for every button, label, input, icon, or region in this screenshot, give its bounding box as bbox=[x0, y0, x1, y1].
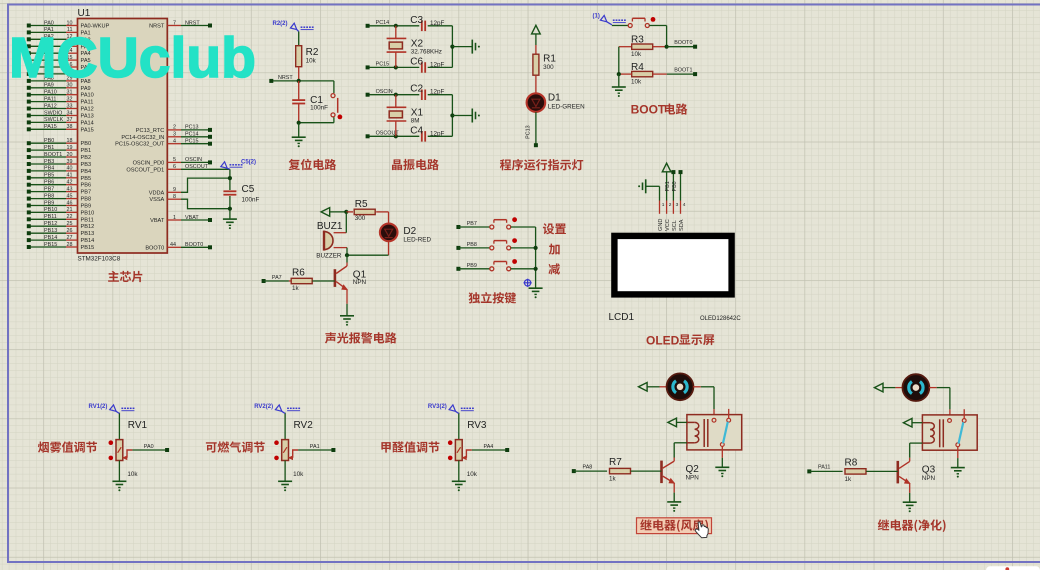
svg-text:20: 20 bbox=[67, 152, 73, 158]
svg-text:C4: C4 bbox=[410, 125, 423, 136]
svg-text:3: 3 bbox=[676, 202, 679, 208]
svg-text:18: 18 bbox=[67, 138, 73, 144]
svg-text:(1): (1) bbox=[593, 14, 600, 20]
svg-text:6: 6 bbox=[173, 164, 176, 170]
svg-text:PB8: PB8 bbox=[81, 197, 92, 203]
svg-text:2: 2 bbox=[173, 125, 176, 131]
svg-text:LED-GREEN: LED-GREEN bbox=[548, 104, 585, 111]
svg-text:PA11: PA11 bbox=[44, 96, 56, 102]
svg-text:41: 41 bbox=[67, 173, 73, 179]
svg-text:R1: R1 bbox=[543, 54, 556, 65]
svg-text:100nF: 100nF bbox=[310, 105, 328, 112]
svg-text:300: 300 bbox=[543, 64, 554, 71]
svg-text:1: 1 bbox=[173, 215, 176, 221]
svg-text:NPN: NPN bbox=[353, 279, 367, 286]
svg-text:PC15: PC15 bbox=[185, 139, 199, 145]
svg-text:38: 38 bbox=[67, 124, 73, 130]
svg-text:PB1: PB1 bbox=[44, 145, 54, 151]
svg-text:SWCLK: SWCLK bbox=[44, 117, 64, 123]
svg-text:PA12: PA12 bbox=[81, 107, 94, 113]
svg-text:VSSA: VSSA bbox=[149, 197, 164, 203]
svg-text:PB14: PB14 bbox=[81, 238, 95, 244]
svg-text:RV3: RV3 bbox=[467, 420, 487, 431]
svg-text:PA12: PA12 bbox=[44, 103, 57, 109]
svg-text:OLED: OLED bbox=[646, 334, 680, 348]
svg-text:PC14-OSC32_IN: PC14-OSC32_IN bbox=[121, 135, 164, 141]
svg-text:PB7: PB7 bbox=[81, 190, 92, 196]
svg-text:D1: D1 bbox=[548, 93, 561, 104]
svg-text:33: 33 bbox=[67, 103, 73, 109]
svg-text:12pF: 12pF bbox=[430, 89, 445, 96]
svg-text:34: 34 bbox=[67, 110, 73, 116]
svg-text:PC15: PC15 bbox=[376, 62, 390, 68]
svg-text:PB15: PB15 bbox=[44, 242, 57, 248]
svg-text:28: 28 bbox=[67, 242, 73, 248]
svg-text:PB6: PB6 bbox=[81, 183, 92, 189]
svg-text:PB9: PB9 bbox=[467, 263, 477, 269]
svg-text:PA11: PA11 bbox=[81, 100, 94, 106]
svg-text:21: 21 bbox=[67, 207, 73, 213]
svg-text:PB11: PB11 bbox=[81, 217, 94, 223]
svg-text:PA13: PA13 bbox=[81, 114, 94, 120]
svg-text:BOOT0: BOOT0 bbox=[674, 40, 692, 46]
svg-text:12pF: 12pF bbox=[430, 130, 445, 137]
svg-text:BOOT1: BOOT1 bbox=[674, 68, 692, 74]
svg-text:BOOT1: BOOT1 bbox=[44, 152, 62, 158]
svg-text:1k: 1k bbox=[609, 476, 617, 483]
svg-text:PA1: PA1 bbox=[310, 444, 320, 450]
svg-text:8: 8 bbox=[173, 194, 176, 200]
svg-text:NPN: NPN bbox=[686, 475, 700, 482]
svg-text:PB1: PB1 bbox=[665, 181, 671, 191]
svg-text:PB11: PB11 bbox=[44, 214, 57, 220]
svg-text:VBAT: VBAT bbox=[185, 215, 199, 221]
svg-text:10k: 10k bbox=[293, 471, 304, 478]
svg-text:LED-RED: LED-RED bbox=[403, 236, 431, 243]
svg-text:OSCOUT: OSCOUT bbox=[185, 164, 209, 170]
svg-text:1k: 1k bbox=[292, 285, 300, 292]
svg-text:PC15-OSC32_OUT: PC15-OSC32_OUT bbox=[115, 142, 165, 148]
svg-text:PB10: PB10 bbox=[44, 207, 57, 213]
svg-text:PB12: PB12 bbox=[44, 221, 57, 227]
svg-text:PB9: PB9 bbox=[44, 200, 54, 206]
svg-text:NPN: NPN bbox=[922, 475, 936, 482]
svg-text:RV2: RV2 bbox=[294, 420, 314, 431]
svg-text:C6: C6 bbox=[410, 56, 423, 67]
svg-text:10k: 10k bbox=[631, 51, 642, 58]
svg-text:PB5: PB5 bbox=[44, 173, 54, 179]
svg-text:PB6: PB6 bbox=[44, 180, 54, 186]
svg-text:100nF: 100nF bbox=[242, 197, 260, 204]
svg-text:22: 22 bbox=[67, 214, 73, 220]
svg-text:10k: 10k bbox=[127, 471, 138, 478]
svg-text:42: 42 bbox=[67, 180, 73, 186]
svg-text:40: 40 bbox=[67, 166, 73, 172]
svg-text:45: 45 bbox=[67, 193, 73, 199]
svg-text:R2(2): R2(2) bbox=[273, 21, 288, 27]
svg-text:PA8: PA8 bbox=[583, 464, 593, 470]
svg-text:BUZZER: BUZZER bbox=[316, 253, 342, 260]
svg-text:27: 27 bbox=[67, 235, 73, 241]
svg-text:PB0: PB0 bbox=[81, 141, 92, 147]
svg-text:9: 9 bbox=[173, 187, 176, 193]
svg-text:BOOT: BOOT bbox=[631, 103, 666, 117]
svg-text:300: 300 bbox=[355, 215, 366, 222]
svg-text:R6: R6 bbox=[292, 268, 305, 279]
svg-text:PC14: PC14 bbox=[376, 20, 390, 26]
svg-text:PB5: PB5 bbox=[81, 176, 92, 182]
svg-text:BUZ1: BUZ1 bbox=[317, 221, 343, 232]
svg-text:32: 32 bbox=[67, 96, 73, 102]
svg-text:RV2(2): RV2(2) bbox=[254, 404, 273, 410]
svg-text:5: 5 bbox=[173, 157, 176, 163]
svg-text:10k: 10k bbox=[467, 471, 478, 478]
svg-text:R5: R5 bbox=[355, 199, 368, 210]
svg-text:BOOT0: BOOT0 bbox=[185, 242, 203, 248]
svg-text:PB4: PB4 bbox=[81, 169, 92, 175]
svg-text:PA0: PA0 bbox=[144, 444, 154, 450]
svg-text:37: 37 bbox=[67, 117, 73, 123]
svg-text:10k: 10k bbox=[631, 78, 642, 85]
svg-text:32.768KHz: 32.768KHz bbox=[411, 48, 442, 55]
svg-text:U1: U1 bbox=[78, 8, 91, 19]
svg-text:PA15: PA15 bbox=[81, 127, 94, 133]
svg-text:R8: R8 bbox=[845, 457, 858, 468]
svg-text:VBAT: VBAT bbox=[150, 218, 165, 224]
svg-text:39: 39 bbox=[67, 159, 73, 165]
svg-text:8M: 8M bbox=[411, 117, 420, 124]
svg-text:LCD1: LCD1 bbox=[609, 312, 635, 323]
svg-text:C3: C3 bbox=[410, 15, 423, 26]
svg-text:PA15: PA15 bbox=[44, 124, 57, 130]
svg-text:PA10: PA10 bbox=[81, 93, 94, 99]
svg-text:1: 1 bbox=[662, 202, 665, 208]
svg-text:43: 43 bbox=[67, 186, 73, 192]
svg-text:C5(2): C5(2) bbox=[241, 160, 256, 166]
svg-text:BOOT0: BOOT0 bbox=[145, 245, 164, 251]
svg-text:2: 2 bbox=[669, 202, 672, 208]
svg-text:SWDIO: SWDIO bbox=[44, 110, 62, 116]
svg-text:PB3: PB3 bbox=[81, 162, 92, 168]
svg-text:RV1(2): RV1(2) bbox=[89, 404, 108, 410]
svg-text:OSCOUT_PD1: OSCOUT_PD1 bbox=[126, 167, 164, 173]
svg-text:PA7: PA7 bbox=[272, 275, 282, 281]
svg-text:PB13: PB13 bbox=[44, 228, 57, 234]
svg-text:PB2: PB2 bbox=[81, 155, 92, 161]
svg-text:25: 25 bbox=[67, 221, 73, 227]
svg-text:12pF: 12pF bbox=[430, 61, 445, 68]
svg-text:19: 19 bbox=[67, 145, 73, 151]
svg-text:OSCIN: OSCIN bbox=[185, 157, 202, 163]
svg-text:NRST: NRST bbox=[278, 75, 293, 81]
svg-text:PC13: PC13 bbox=[185, 125, 199, 131]
svg-text:OLED128642C: OLED128642C bbox=[700, 316, 741, 322]
svg-text:PB10: PB10 bbox=[81, 210, 95, 216]
svg-text:VDDA: VDDA bbox=[149, 190, 165, 196]
svg-text:10k: 10k bbox=[306, 58, 317, 65]
svg-text:PB14: PB14 bbox=[44, 235, 57, 241]
svg-text:Q2: Q2 bbox=[686, 464, 700, 475]
svg-text:PB4: PB4 bbox=[44, 166, 54, 172]
svg-text:PC13: PC13 bbox=[526, 125, 532, 139]
svg-text:PA4: PA4 bbox=[484, 444, 494, 450]
svg-text:1k: 1k bbox=[845, 476, 853, 483]
svg-text:PB9: PB9 bbox=[81, 204, 92, 210]
svg-text:SDA: SDA bbox=[679, 219, 685, 231]
svg-text:46: 46 bbox=[67, 200, 73, 206]
svg-text:C2: C2 bbox=[410, 84, 423, 95]
svg-text:PB7: PB7 bbox=[467, 221, 477, 227]
svg-text:SCL: SCL bbox=[672, 220, 678, 231]
svg-text:OSCIN_PD0: OSCIN_PD0 bbox=[133, 160, 165, 166]
svg-text:4: 4 bbox=[173, 139, 176, 145]
svg-text:C5: C5 bbox=[242, 184, 255, 195]
svg-text:PB0: PB0 bbox=[44, 138, 54, 144]
svg-text:PB0: PB0 bbox=[672, 181, 678, 191]
svg-text:R3: R3 bbox=[631, 35, 644, 46]
svg-text:PC14: PC14 bbox=[185, 132, 199, 138]
svg-text:PA11: PA11 bbox=[818, 465, 830, 471]
svg-text:GND: GND bbox=[658, 219, 664, 231]
svg-text:PC13_RTC: PC13_RTC bbox=[136, 128, 165, 134]
svg-text:R7: R7 bbox=[609, 457, 622, 468]
svg-text:RV3(2): RV3(2) bbox=[428, 404, 447, 410]
svg-text:26: 26 bbox=[67, 228, 73, 234]
svg-text:RV1: RV1 bbox=[128, 420, 148, 431]
svg-text:R2: R2 bbox=[306, 47, 319, 58]
svg-text:Q3: Q3 bbox=[922, 464, 936, 475]
svg-text:OSCIN: OSCIN bbox=[376, 89, 393, 95]
svg-text:PB8: PB8 bbox=[467, 242, 477, 248]
svg-text:PB8: PB8 bbox=[44, 193, 54, 199]
svg-text:PB3: PB3 bbox=[44, 159, 54, 165]
svg-text:4: 4 bbox=[683, 202, 686, 208]
svg-text:PB15: PB15 bbox=[81, 245, 95, 251]
svg-text:PB7: PB7 bbox=[44, 186, 54, 192]
svg-text:44: 44 bbox=[170, 242, 176, 248]
svg-text:VCC: VCC bbox=[665, 219, 671, 231]
svg-text:PB1: PB1 bbox=[81, 148, 92, 154]
svg-text:PB13: PB13 bbox=[81, 231, 95, 237]
svg-text:STM32F103C8: STM32F103C8 bbox=[78, 256, 121, 263]
svg-text:12pF: 12pF bbox=[430, 20, 445, 27]
svg-text:PB12: PB12 bbox=[81, 224, 95, 230]
svg-text:3: 3 bbox=[173, 132, 176, 138]
svg-text:R4: R4 bbox=[631, 62, 644, 73]
svg-text:PA14: PA14 bbox=[81, 120, 94, 126]
